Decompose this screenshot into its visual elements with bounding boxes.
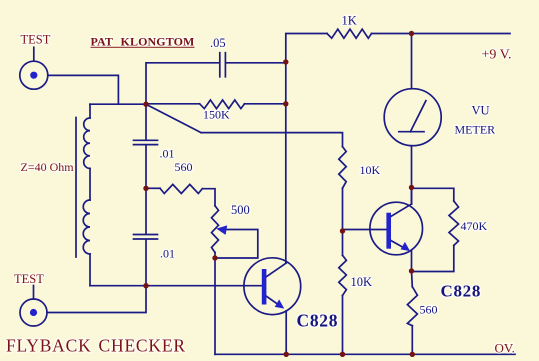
VU meter needle xyxy=(410,101,426,132)
wire: 560A to pot top xyxy=(202,189,215,206)
junction dot rail Q1 emitter xyxy=(284,352,289,357)
junction dot Q2 base xyxy=(340,228,345,233)
node A junction dot xyxy=(143,102,148,107)
junction dot Q2 emitter/470K xyxy=(409,268,414,273)
svg-text:C828: C828 xyxy=(441,281,482,300)
wire: Q2 base node to base xyxy=(343,229,387,231)
capacitor .05 right lead xyxy=(226,62,286,64)
resistor 470K xyxy=(449,201,459,245)
wire: loop left bottom xyxy=(89,254,91,286)
svg-text:.01: .01 xyxy=(160,247,175,261)
wire: rail junction down to VU meter xyxy=(411,34,413,89)
resistor 560 left leads xyxy=(146,187,160,189)
wire: Q2 collector up to meter node xyxy=(411,188,413,205)
title underline xyxy=(91,46,195,48)
junction dot rail/meter xyxy=(409,31,414,36)
wire: VU meter bottom to collector node xyxy=(411,146,413,204)
svg-text:10K: 10K xyxy=(351,275,373,289)
wire: loop top xyxy=(90,103,146,105)
wire: 0V bottom rail xyxy=(215,353,515,355)
svg-text:560: 560 xyxy=(175,160,193,174)
resistor 10K lower xyxy=(339,255,347,295)
wire: 470K top loop xyxy=(412,188,454,201)
svg-text:1K: 1K xyxy=(342,13,357,27)
transistor Q1 collector xyxy=(266,263,286,277)
capacitor .01 lower lead bottom xyxy=(145,240,147,286)
test point 1 label leader xyxy=(33,47,35,61)
test point 1 center dot xyxy=(30,72,37,79)
svg-text:.05: .05 xyxy=(210,36,226,50)
potentiometer wiper tail xyxy=(215,230,258,259)
svg-text:470K: 470K xyxy=(461,219,488,233)
svg-text:PATKLONGTOM: PATKLONGTOM xyxy=(91,34,195,48)
potentiometer wiper arrowhead xyxy=(216,225,227,235)
svg-text:OV.: OV. xyxy=(495,340,515,355)
capacitor .01 upper plate top xyxy=(134,139,158,141)
wire: loop left top xyxy=(89,104,91,118)
capacitor .01 lower plate bottom xyxy=(134,238,158,240)
wire: emitter node to 560B xyxy=(411,271,414,287)
transistor Q2 emitter xyxy=(390,240,406,249)
junction dot 150K right xyxy=(283,101,288,106)
resistor 1K xyxy=(327,29,372,38)
wire: test point 1 to loop top xyxy=(48,75,118,104)
capacitor .01 upper lead bottom xyxy=(145,145,147,188)
capacitor .01 upper lead top xyxy=(145,104,147,139)
wire: Q1 emitter to 0V rail xyxy=(285,311,287,354)
transistor Q2 collector xyxy=(390,204,412,217)
wire: upper 10K to Q2 base node xyxy=(342,188,344,231)
test point 1 jack xyxy=(20,61,48,89)
svg-text:C828: C828 xyxy=(297,310,339,330)
wire: winding middle xyxy=(89,168,91,200)
resistor 10K upper xyxy=(339,147,346,189)
test point 2 label leader xyxy=(33,286,35,299)
capacitor .01 lower plate top xyxy=(134,234,158,236)
svg-text:560: 560 xyxy=(420,303,438,317)
transistor Q1 base bar xyxy=(262,269,267,305)
transistor Q1 emitter arrowhead xyxy=(275,299,285,308)
wire: 150K left lead from node A xyxy=(146,103,200,105)
transistor Q1 body xyxy=(244,258,301,315)
junction dot 560A left xyxy=(143,186,148,191)
potentiometer 500 element xyxy=(212,206,219,253)
junction dot rail 10K xyxy=(340,352,345,357)
wire: test point 2 to loop bottom node xyxy=(47,286,146,313)
svg-text:VU: VU xyxy=(472,103,490,117)
wire: 1K to +9V rail end xyxy=(372,33,511,35)
junction dot rail 560B xyxy=(410,352,415,357)
capacitor .01 upper plate bottom xyxy=(134,144,158,146)
inductor winding upper xyxy=(84,118,90,168)
transformer core bar xyxy=(75,118,77,258)
capacitor .05 left lead xyxy=(146,63,219,104)
svg-text:10K: 10K xyxy=(360,163,381,177)
transistor Q2 body xyxy=(370,202,423,255)
svg-text:METER: METER xyxy=(455,123,496,137)
transistor Q1 emitter xyxy=(266,296,281,307)
svg-text:500: 500 xyxy=(231,203,250,217)
wire: lower 10K to 0V rail xyxy=(342,296,344,355)
wire: 560B to 0V rail xyxy=(411,326,413,355)
wire: pot bottom to wiper return xyxy=(214,253,216,259)
junction dot meter/Q2 collector xyxy=(409,185,414,190)
wire: 150K right lead xyxy=(245,103,286,105)
svg-text:150K: 150K xyxy=(203,107,230,121)
test point 2 center dot xyxy=(30,309,37,316)
wire: diagonal node A to 10K feed xyxy=(146,104,201,132)
transistor Q2 emitter arrowhead xyxy=(401,242,411,251)
resistor 560 right xyxy=(407,287,417,326)
wire: loop bottom / Q1 base xyxy=(90,285,262,287)
junction dot pot bottom xyxy=(212,255,217,260)
junction dot loop bottom xyxy=(143,283,148,288)
wire: Q2 base node down to lower 10K xyxy=(342,231,344,255)
wire: 470K bottom loop xyxy=(412,245,454,271)
wire: vertical bus cap.05/150K to Q1 collector xyxy=(285,62,287,263)
wire: horizontal feed to upper 10K xyxy=(201,133,343,147)
resistor 150K xyxy=(200,100,245,109)
test point 2 jack xyxy=(20,299,47,326)
svg-text:Z=40 Ohm: Z=40 Ohm xyxy=(21,160,75,174)
capacitor .05 plate right xyxy=(224,53,226,77)
wire: Q2 emitter down to node xyxy=(411,251,413,271)
svg-text:TEST: TEST xyxy=(21,33,51,47)
capacitor .05 plate left xyxy=(219,53,221,77)
wire: +9V top rail left segment xyxy=(286,34,327,63)
svg-text:.01: .01 xyxy=(160,147,175,161)
svg-text:TEST: TEST xyxy=(14,272,44,286)
junction dot cap.05/rail xyxy=(283,59,288,64)
svg-text:+9 V.: +9 V. xyxy=(482,48,512,63)
resistor 560 left xyxy=(160,184,202,193)
VU meter body xyxy=(384,89,441,146)
transistor Q2 base bar xyxy=(386,213,391,249)
inductor winding lower xyxy=(83,200,90,254)
VU meter scale baseline xyxy=(399,131,424,133)
wire: 560A left node down xyxy=(145,188,147,234)
wire: pot node down to 0V rail xyxy=(214,258,216,354)
